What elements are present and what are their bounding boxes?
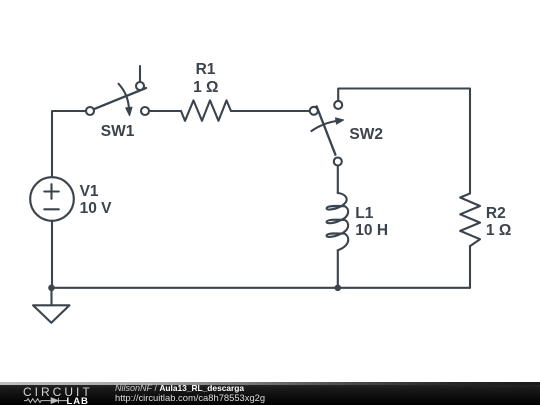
value 1 Ω (R1) [193, 80, 218, 96]
wire left rail top (V1 top to top-left corner to SW1) [52, 111, 86, 177]
node A (ground junction) [48, 285, 55, 292]
wire SW1 right terminal to R1 [149, 110, 181, 112]
node B (L1 bottom junction) [335, 285, 342, 292]
value 1 Ω (R2) [486, 223, 511, 239]
wire L1 bottom to node B [337, 250, 339, 287]
inductor L1 [327, 193, 349, 250]
wire SW2 top terminal to top-right corner to R2 top [338, 89, 470, 194]
label V1 [80, 184, 99, 200]
voltage source V1 [30, 177, 74, 221]
footer title text [115, 384, 244, 394]
label R2 [486, 206, 506, 222]
switch SW1 [86, 66, 149, 116]
wire V1 bottom to ground node [51, 221, 53, 288]
wire SW2 bottom terminal to L1 top [337, 166, 339, 194]
footer url text [115, 393, 265, 403]
value 10 H [355, 223, 388, 239]
wire R2 bottom to bottom rail [469, 246, 471, 288]
wire R1 to SW2 left terminal [231, 110, 310, 112]
switch SW2 [310, 101, 344, 166]
label L1 [355, 206, 373, 222]
wire bottom rail [52, 287, 470, 289]
resistor R2 [460, 194, 480, 247]
resistor R1 [181, 100, 231, 120]
ground [33, 288, 70, 323]
label R1 [196, 62, 216, 78]
label SW1 [101, 124, 135, 140]
footer bar [0, 382, 540, 405]
footer bar top highlight [0, 382, 540, 384]
footer logo CIRCUITLAB [23, 387, 93, 397]
value 10 V [80, 201, 112, 217]
label SW2 [349, 127, 383, 143]
